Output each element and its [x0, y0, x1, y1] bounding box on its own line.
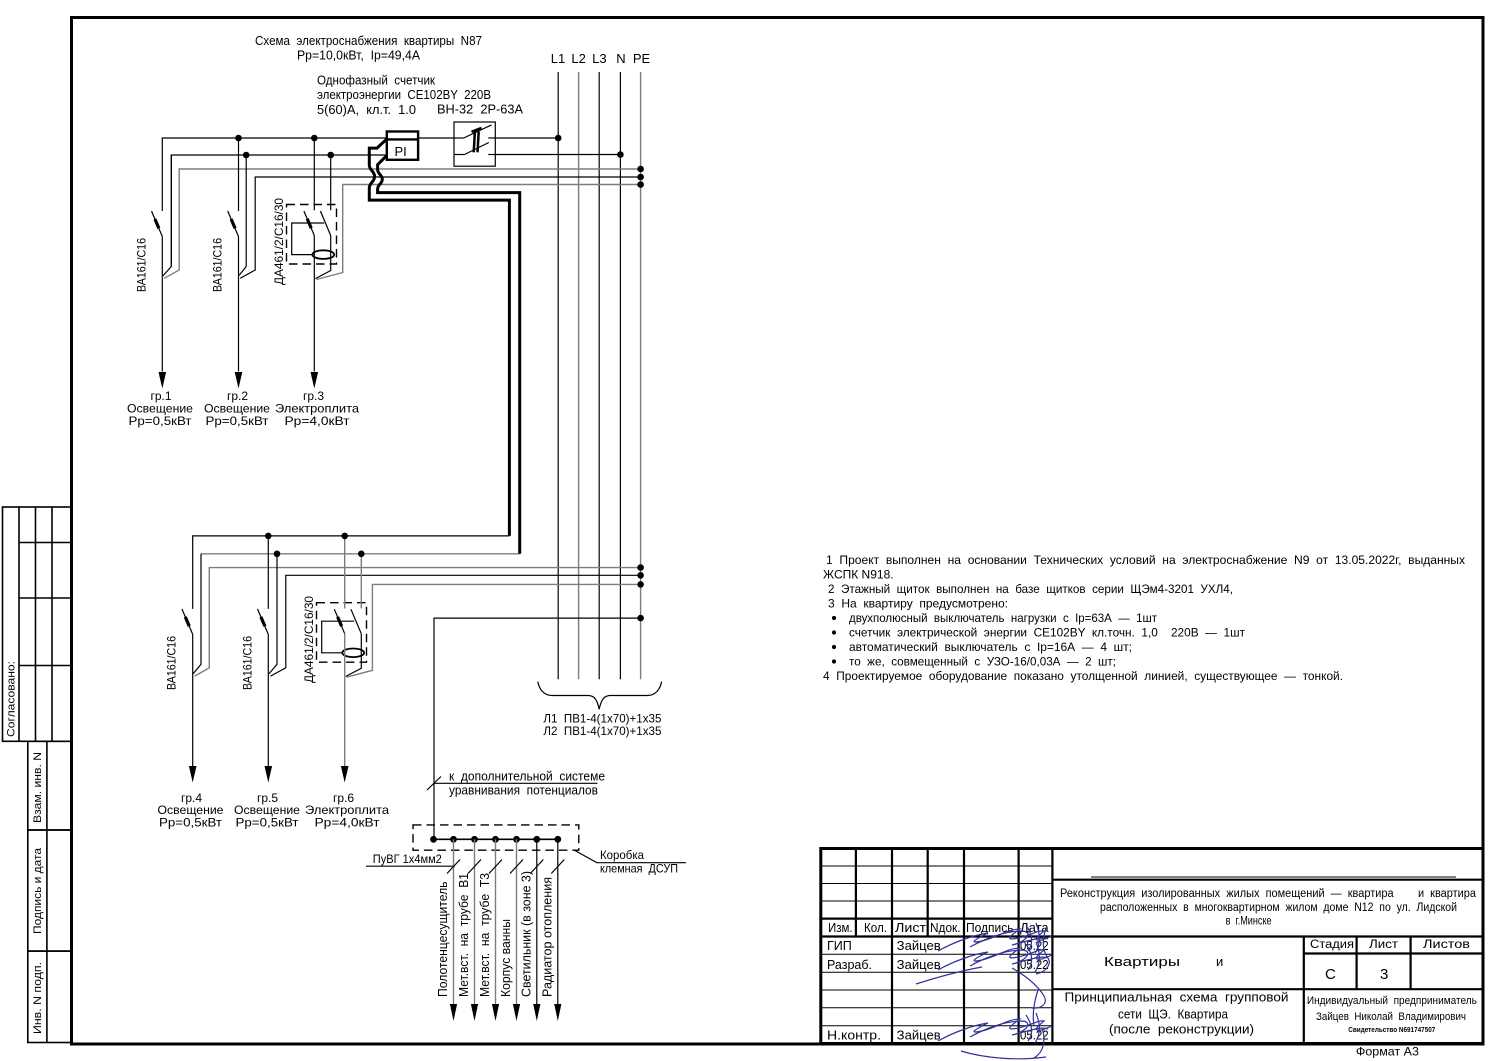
- svg-text:Реконструкция изолированных: Реконструкция изолированных жилых помеще…: [1060, 888, 1477, 900]
- wire PE to supplementary bonding system: [434, 618, 641, 839]
- svg-text:Мет.вст. на трубе Т3: Мет.вст. на трубе Т3: [477, 873, 492, 997]
- svg-text:1 Проект выполнен на основ: 1 Проект выполнен на основании Техническ…: [826, 553, 1465, 567]
- svg-text:то же, совмещенный с УЗО-1: то же, совмещенный с УЗО-16/0,03А — 2 шт…: [849, 655, 1116, 669]
- svg-text:Разраб.: Разраб.: [827, 958, 872, 972]
- arrow feeder group 4: [189, 766, 197, 783]
- svg-text:ВА161/С16: ВА161/С16: [240, 636, 254, 690]
- svg-text:Мет.вст. на трубе В1: Мет.вст. на трубе В1: [456, 873, 471, 997]
- label group 4: [158, 791, 224, 830]
- svg-text:Л2 ПВ1-4(1х70)+1х35: Л2 ПВ1-4(1х70)+1х35: [543, 724, 661, 738]
- svg-text:Однофазный счетчик: Однофазный счетчик: [317, 73, 435, 88]
- svg-text:расположенных в многоквартир: расположенных в многоквартирном жилом до…: [1100, 902, 1457, 914]
- svg-text:ВА161/С16: ВА161/С16: [134, 238, 148, 292]
- wire N drop group 4: [193, 554, 201, 674]
- svg-text:5(60)А, кл.т. 1.0: 5(60)А, кл.т. 1.0: [317, 102, 416, 117]
- net N supply riser: [616, 51, 625, 679]
- bonding conductor 6 Радиатор отопления: [539, 839, 564, 1021]
- arrow feeder group 6: [341, 766, 349, 783]
- svg-text:L1: L1: [551, 51, 565, 66]
- svg-text:клемная ДСУП: клемная ДСУП: [600, 862, 678, 876]
- svg-text:Рр=4,0кВт: Рр=4,0кВт: [285, 414, 351, 428]
- label group 3: [275, 389, 359, 428]
- net L1 supply riser: [551, 51, 565, 679]
- svg-text:Рр=0,5кВт: Рр=0,5кВт: [206, 414, 270, 428]
- svg-text:Листов: Листов: [1423, 939, 1470, 951]
- wire N drop group 5: [269, 554, 277, 674]
- svg-text:ДА461/2/С16/30: ДА461/2/С16/30: [272, 198, 286, 285]
- left margin form: Инв. N подп. block: [28, 951, 72, 1042]
- svg-text:Подпись и дата: Подпись и дата: [32, 847, 44, 934]
- svg-text:и: и: [1216, 954, 1223, 969]
- RCD QFD1 ДА461/2/С16/30 group 3: [287, 138, 337, 372]
- svg-text:Взам. инв. N: Взам. инв. N: [32, 752, 44, 823]
- PE bonding bus in box: [434, 838, 559, 840]
- riser wire N to apartment 2 panel (proposed, thick): [378, 156, 520, 554]
- svg-text:Стадия: Стадия: [1310, 939, 1354, 951]
- svg-text:Рр=0,5кВт: Рр=0,5кВт: [159, 816, 223, 830]
- net L3 supply riser: [592, 51, 606, 679]
- left margin form: Взам. инв. N block: [28, 741, 72, 830]
- svg-text:С: С: [1325, 966, 1336, 983]
- bonding conductor 4 Корпус ванны: [498, 839, 523, 1021]
- notes: [823, 553, 1465, 683]
- left margin form: Подпись и дата block: [28, 830, 72, 951]
- svg-text:Полотенцесущитель: Полотенцесущитель: [435, 881, 450, 997]
- breaker QF5 ВА161/С16 group 5: [258, 536, 269, 766]
- arrow feeder group 2: [235, 372, 243, 389]
- svg-text:3: 3: [1380, 966, 1388, 983]
- svg-text:Изм.: Изм.: [828, 921, 853, 935]
- svg-text:к дополнительной системе: к дополнительной системе: [449, 770, 605, 784]
- arrow feeder group 1: [159, 372, 167, 389]
- wire PE group 3 (existing, grey): [316, 185, 640, 280]
- label group 6: [305, 791, 389, 830]
- svg-text:ДА461/2/С16/30: ДА461/2/С16/30: [302, 596, 316, 683]
- svg-text:3 На квартиру предусмотрено: 3 На квартиру предусмотрено:: [828, 597, 1008, 611]
- left margin form: Согласовано block: [3, 507, 72, 741]
- wire PE group 1 (existing, grey): [164, 169, 640, 278]
- svg-text:Зайцев: Зайцев: [897, 939, 941, 953]
- label group 1: [127, 389, 193, 428]
- label group 5: [234, 791, 300, 830]
- signatures (blue ink): [916, 923, 1052, 1059]
- wire N drop group 1: [170, 155, 172, 267]
- svg-text:Коробка: Коробка: [600, 848, 644, 862]
- arrow feeder group 5: [265, 766, 273, 783]
- wire PE group 4 (existing, grey): [195, 568, 641, 677]
- junction dots lower buses: [265, 533, 644, 622]
- cable brace Л1/Л2: [538, 682, 662, 710]
- wire N bus apartment 1: [163, 155, 621, 277]
- svg-text:Принципиальная схема группов: Принципиальная схема групповой: [1065, 989, 1289, 1004]
- bonding conductor 2 Мет.вст. на трубе В1: [456, 839, 481, 1021]
- svg-text:N: N: [616, 51, 625, 66]
- leader Коробка клемная ДСУП: [575, 851, 686, 863]
- svg-text:Формат А3: Формат А3: [1356, 1045, 1419, 1059]
- svg-text:Корпус ванны: Корпус ванны: [498, 919, 513, 997]
- svg-text:ПуВГ 1х4мм2: ПуВГ 1х4мм2: [373, 852, 442, 866]
- riser wire L to apartment 2 panel (proposed, thick): [369, 139, 509, 536]
- svg-text:Инв. N подп.: Инв. N подп.: [32, 962, 44, 1034]
- title block header texts: [827, 921, 1049, 1042]
- svg-text:двухполюсный выключатель наг: двухполюсный выключатель нагрузки с Iр=6…: [849, 611, 1157, 625]
- load switch QS1 ВН-32 2Р-63А: [454, 122, 495, 166]
- svg-text:ВА161/С16: ВА161/С16: [211, 238, 225, 292]
- svg-text:Индивидуальный предпринимател: Индивидуальный предприниматель: [1307, 995, 1477, 1007]
- title block project name: [1060, 888, 1477, 969]
- svg-text:(после реконструкции): (после реконструкции): [1109, 1022, 1254, 1037]
- svg-text:L3: L3: [592, 51, 606, 66]
- svg-text:Рр=4,0кВт: Рр=4,0кВт: [315, 816, 381, 830]
- svg-text:PE: PE: [633, 51, 651, 66]
- bonding conductor 3 Мет.вст. на трубе Т3: [477, 839, 502, 1021]
- svg-text:Зайцев: Зайцев: [897, 1028, 941, 1042]
- wire L bus apartment 1: [162, 138, 558, 211]
- svg-text:Рр=0,5кВт: Рр=0,5кВт: [129, 414, 193, 428]
- svg-text:Согласовано:: Согласовано:: [6, 661, 18, 737]
- svg-text:ВА161/С16: ВА161/С16: [165, 636, 179, 690]
- svg-text:ВН-32 2Р-63А: ВН-32 2Р-63А: [437, 101, 523, 116]
- wire PE group 2: [240, 177, 640, 278]
- breaker QF2 ВА161/С16 group 2: [228, 138, 239, 372]
- svg-text:в г.Минске: в г.Минске: [1226, 916, 1272, 928]
- svg-text:Рр=10,0кВт, Iр=49,4А: Рр=10,0кВт, Iр=49,4А: [297, 47, 420, 62]
- svg-text:Квартиры: Квартиры: [1104, 954, 1180, 969]
- svg-text:Рр=0,5кВт: Рр=0,5кВт: [236, 816, 300, 830]
- breaker QF1 ВА161/С16 group 1: [152, 211, 163, 372]
- wire PE group 6 (existing, grey): [347, 584, 641, 677]
- bonding conductor 5 Светильник (в зоне 3): [518, 839, 543, 1021]
- svg-text:Nдок.: Nдок.: [930, 921, 961, 935]
- label group 2: [204, 389, 270, 428]
- svg-text:L2: L2: [571, 51, 585, 66]
- terminal box ДСУП (dashed): [413, 825, 579, 850]
- junction dots upper buses: [235, 135, 644, 188]
- wire L bus apartment 2: [193, 536, 510, 609]
- svg-text:уравнивания потенциалов: уравнивания потенциалов: [449, 784, 598, 798]
- svg-text:автоматический выключатель с: автоматический выключатель с Iр=16А — 4 …: [849, 640, 1132, 654]
- breaker QF4 ВА161/С16 group 4: [182, 609, 193, 766]
- title block grid: [821, 849, 1483, 1044]
- arrow feeder group 3: [311, 372, 319, 389]
- RCD QFD2 ДА461/2/С16/30 group 6: [317, 536, 367, 766]
- leader to supplementary bonding system: [427, 777, 598, 791]
- svg-text:Лист: Лист: [895, 921, 926, 935]
- net PE supply riser: [633, 51, 651, 679]
- junction dots bonding bus: [430, 836, 561, 843]
- svg-text:2 Этажный щиток выполнен н: 2 Этажный щиток выполнен на базе щитков …: [828, 582, 1233, 596]
- svg-text:Радиатор отопления: Радиатор отопления: [539, 877, 554, 997]
- svg-text:Зайцев: Зайцев: [897, 958, 941, 972]
- svg-text:Схема электроснабжения кварт: Схема электроснабжения квартиры N87: [255, 33, 482, 48]
- svg-text:4 Проектируемое оборудование: 4 Проектируемое оборудование показано ут…: [823, 669, 1343, 683]
- svg-text:ГИП: ГИП: [827, 939, 852, 953]
- svg-text:счетчик электрической энерги: счетчик электрической энергии СЕ102BY кл…: [849, 626, 1245, 640]
- svg-text:Кол.: Кол.: [864, 921, 887, 935]
- wire N bus apartment 2 (existing, grey): [201, 553, 520, 555]
- svg-text:Свидетельство N691747507: Свидетельство N691747507: [1348, 1025, 1435, 1034]
- svg-text:электроэнергии СЕ102BY 220В: электроэнергии СЕ102BY 220В: [317, 87, 491, 102]
- meter PI СЕ102BY: [387, 132, 418, 160]
- bonding conductor 1 Полотенцесущитель: [435, 839, 460, 1021]
- net L2 supply riser: [571, 51, 585, 679]
- svg-text:Лист: Лист: [1369, 939, 1399, 951]
- svg-text:Зайцев Николай Владимирович: Зайцев Николай Владимирович: [1316, 1011, 1466, 1023]
- wire N drop group 2: [245, 155, 247, 267]
- svg-text:сети ЩЭ. Квартира: сети ЩЭ. Квартира: [1118, 1006, 1229, 1021]
- svg-text:Н.контр.: Н.контр.: [827, 1028, 881, 1042]
- svg-text:PI: PI: [395, 144, 407, 159]
- svg-text:Светильник (в зоне 3): Светильник (в зоне 3): [518, 871, 533, 997]
- wire PE group 5: [271, 575, 641, 676]
- svg-text:ЖСПК N918.: ЖСПК N918.: [823, 568, 894, 582]
